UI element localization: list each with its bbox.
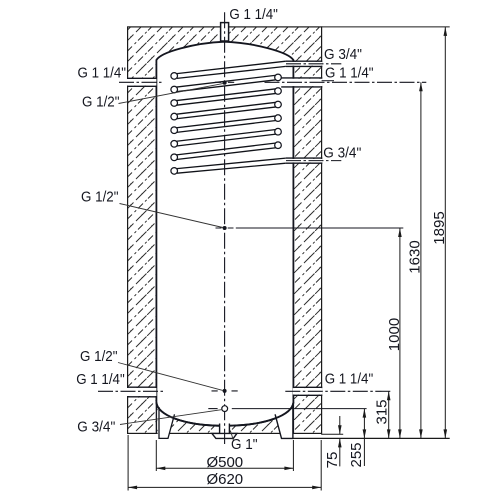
coil right bend 6 [275, 142, 282, 149]
leader G 1/2" lower to sensor [118, 363, 223, 391]
top G 1 1/4" nozzle [221, 23, 229, 41]
coil left bend 2 [171, 86, 178, 93]
75 top extension [321, 433, 343, 435]
svg-text:1630: 1630 [407, 240, 424, 273]
Ø620 extension lines [128, 435, 321, 491]
leader G 1" [230, 431, 233, 441]
svg-text:G 3/4": G 3/4" [324, 46, 362, 63]
svg-text:75: 75 [324, 452, 341, 469]
dimension 1000 [399, 228, 401, 438]
right G 1 1/4" label underline [322, 80, 334, 82]
right G 3/4" lower stub centerline [286, 160, 341, 162]
svg-text:315: 315 [374, 399, 391, 424]
left support foot [158, 405, 175, 438]
1895 top extension line [322, 26, 450, 28]
dimension 1895 [444, 27, 446, 439]
drain circle crosshair + 255 extension [208, 408, 217, 410]
svg-text:G 1 1/4": G 1 1/4" [325, 65, 374, 82]
svg-text:G 3/4": G 3/4" [323, 144, 361, 161]
coil left bend 1 [171, 73, 178, 80]
coil left bend 4 [171, 113, 178, 120]
svg-text:G 1 1/4": G 1 1/4" [78, 64, 127, 81]
coil top sensor point [223, 81, 227, 85]
svg-text:G 1 1/4": G 1 1/4" [76, 371, 125, 388]
lower sensor crosshair [212, 390, 238, 392]
dished bottom outline [156, 403, 293, 426]
coil left bend 6 [171, 141, 178, 148]
right support foot [275, 405, 293, 438]
svg-text:255: 255 [348, 442, 365, 467]
lower left stub centerline [98, 390, 164, 392]
coil right bend 3 [275, 101, 282, 108]
coil left bend 5 [171, 127, 178, 134]
coil tube 7 [175, 143, 277, 160]
coil left bend 7 [171, 154, 178, 161]
coil tube 6 [175, 129, 277, 146]
vertical centerline [224, 12, 226, 444]
bottom G 1" connection stub [220, 424, 230, 434]
dimension 255 [363, 409, 365, 466]
left upper stub centerline [119, 81, 164, 83]
coil supply tube [177, 61, 286, 78]
left upper G 1 1/4" stub [127, 79, 156, 86]
svg-text:G 1 1/4": G 1 1/4" [325, 370, 374, 387]
coil right bend 4 [275, 115, 282, 122]
bottom G 1" flange [212, 433, 237, 438]
svg-text:1895: 1895 [431, 211, 448, 244]
coil tube 5 [175, 116, 277, 133]
leader G 1/2" upper to coil sensor [119, 84, 223, 104]
dimension 75 [339, 416, 341, 466]
Ø500 extension lines [156, 440, 293, 471]
coil right bend 2 [275, 88, 282, 95]
leader G 3/4" to drain [120, 410, 222, 425]
coil right bend 1 [275, 74, 282, 81]
right G 3/4" upper stub centerline [286, 63, 341, 65]
insulation casing (hatched) [128, 27, 322, 434]
right bottom G 1 1/4" stub [293, 388, 323, 394]
right lower stub centerline / 315 extension [285, 390, 390, 392]
right upper G 3/4" stub (coil supply) [286, 62, 323, 66]
leader G 1/2" middle to sensor [120, 204, 223, 228]
middle sensor crosshair + 1000 extension [216, 227, 234, 229]
drain circle [222, 406, 228, 412]
svg-text:G 1/2": G 1/2" [82, 94, 120, 111]
coil top sensor crosshair [215, 81, 234, 83]
coil tube 3 [175, 89, 277, 106]
svg-text:G 1 1/4": G 1 1/4" [229, 6, 278, 23]
right lower G 3/4" stub (coil return) [286, 159, 323, 163]
middle sensor point [223, 226, 227, 230]
right G 1 1/4" stub [281, 79, 322, 86]
coil return tube [177, 158, 286, 173]
svg-text:G 1": G 1" [231, 436, 258, 453]
coil tube 2 [175, 75, 277, 92]
left lower G 1 1/4" stub [127, 388, 156, 396]
svg-text:Ø500: Ø500 [206, 454, 243, 471]
svg-text:G 3/4": G 3/4" [77, 419, 115, 436]
coil left bend 8 [171, 168, 178, 175]
svg-text:G 1/2": G 1/2" [81, 188, 119, 205]
coil right bend 5 [275, 128, 282, 135]
dimension Ø500 [156, 467, 293, 469]
tank vessel (dome top, cylindrical shell, dished bottom) [156, 42, 293, 426]
dimension 1630 [420, 82, 422, 438]
tank shell skirt lines [156, 402, 293, 433]
floor baseline [293, 437, 450, 439]
coil tube 4 [175, 102, 277, 119]
svg-text:G 1/2": G 1/2" [80, 348, 118, 365]
dimension Ø620 [128, 486, 321, 488]
lower sensor point [223, 389, 227, 393]
right G 1 1/4" stub centerline / 1630 extension [265, 81, 427, 83]
svg-text:Ø620: Ø620 [206, 471, 243, 488]
svg-text:1000: 1000 [386, 318, 403, 351]
coil left bend 3 [171, 100, 178, 107]
dimension 315 [388, 391, 390, 438]
